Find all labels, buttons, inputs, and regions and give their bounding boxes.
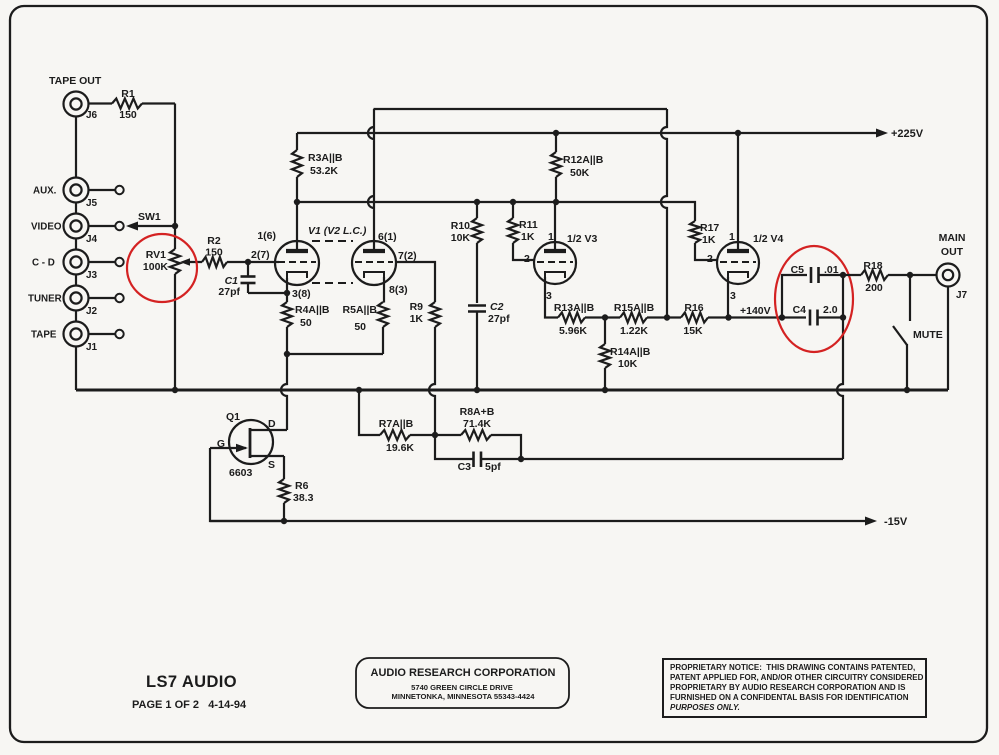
svg-text:R13A||B: R13A||B: [554, 302, 595, 314]
svg-text:J6: J6: [86, 110, 98, 121]
wire J1 contact: [89, 333, 116, 335]
svg-text:150: 150: [119, 109, 137, 121]
wire ground bus: [76, 389, 948, 392]
svg-text:LS7 AUDIO: LS7 AUDIO: [146, 673, 237, 691]
wire V1a anode to R3A node: [296, 202, 298, 251]
svg-text:+140V: +140V: [740, 305, 771, 317]
junction R6 / -15V bus: [281, 518, 287, 524]
wire R14A to ground bus: [604, 368, 606, 390]
junction RV1 ground: [172, 387, 178, 393]
wire R3A top to +225V bus: [296, 133, 298, 150]
junction V4 anode feed: [735, 130, 741, 136]
capacitor C1: [218, 262, 255, 298]
svg-text:TAPE OUT: TAPE OUT: [49, 75, 102, 87]
svg-text:10K: 10K: [451, 232, 471, 244]
svg-text:C - D: C - D: [32, 258, 55, 269]
svg-text:6(1): 6(1): [378, 231, 397, 243]
svg-text:+225V: +225V: [891, 128, 924, 140]
svg-text:AUDIO RESEARCH CORPORATION: AUDIO RESEARCH CORPORATION: [371, 667, 556, 679]
svg-text:5740 GREEN CIRCLE DRIVE: 5740 GREEN CIRCLE DRIVE: [411, 683, 513, 692]
svg-text:27pf: 27pf: [218, 286, 240, 298]
resistor R18: [861, 260, 888, 294]
svg-text:7(2): 7(2): [398, 250, 417, 262]
svg-text:C5: C5: [791, 264, 805, 276]
resistor R1: [112, 88, 142, 121]
resistor R12A||B: [551, 152, 604, 179]
wire C2 to ground bus: [476, 312, 478, 391]
svg-text:R14A||B: R14A||B: [610, 346, 651, 358]
svg-text:50K: 50K: [570, 167, 590, 179]
capacitor C5: [791, 264, 839, 283]
svg-text:J1: J1: [86, 342, 98, 353]
svg-text:50: 50: [354, 321, 366, 333]
svg-text:R5A||B: R5A||B: [343, 304, 378, 316]
junction C4 right: [840, 314, 846, 320]
svg-text:53.2K: 53.2K: [310, 165, 338, 177]
resistor R3A||B: [292, 150, 343, 177]
svg-text:200: 200: [865, 282, 883, 294]
svg-text:38.3: 38.3: [293, 492, 314, 504]
svg-text:R18: R18: [863, 260, 882, 272]
svg-text:15K: 15K: [683, 325, 703, 337]
jack J3 C - D: [32, 250, 115, 282]
wire cathode bus down to Q1 drain (hops ground bus): [281, 354, 287, 430]
svg-text:100K: 100K: [143, 261, 169, 273]
junction C2 ground: [474, 387, 480, 393]
svg-text:1(6): 1(6): [257, 230, 276, 242]
junction C3/R8A node: [518, 456, 524, 462]
wire C3 to output return: [481, 458, 521, 460]
svg-text:R17: R17: [700, 222, 719, 234]
svg-text:1K: 1K: [702, 234, 716, 246]
switch MUTE: [893, 275, 943, 391]
wire J2 contact: [89, 297, 116, 299]
svg-text:MUTE: MUTE: [913, 329, 943, 341]
svg-text:MINNETONKA, MINNESOTA 55343-44: MINNETONKA, MINNESOTA 55343-4424: [392, 692, 536, 701]
potentiometer RV1 100K: [143, 249, 202, 274]
net +225V bus wire: [297, 132, 880, 134]
wire C5 to output node: [819, 274, 844, 276]
proprietary notice box: [663, 659, 926, 717]
resistor R4A||B: [282, 302, 330, 329]
wire RV1 bottom to ground bus: [174, 274, 176, 390]
svg-text:1/2 V3: 1/2 V3: [567, 233, 598, 245]
wire V3 anode to plate bus: [554, 202, 556, 251]
junction R14A ground: [602, 387, 608, 393]
svg-text:2(7): 2(7): [251, 249, 270, 261]
triode V4 (1/2 V4): [717, 242, 759, 284]
jack J1 TAPE: [31, 322, 115, 354]
title block Audio Research Corporation: [356, 658, 569, 708]
svg-text:R6: R6: [295, 480, 309, 492]
RV1 wiper arrow: [184, 261, 202, 263]
capacitor C3: [458, 452, 502, 474]
svg-text:3: 3: [730, 290, 736, 302]
wire R12A top lead: [555, 133, 557, 152]
wire J6 to R1: [89, 102, 113, 104]
svg-text:R11: R11: [519, 219, 538, 231]
wire J5 contact: [89, 189, 116, 191]
wire R13A to R15A: [585, 316, 620, 318]
wire C1 to node 3(8): [248, 292, 287, 294]
svg-text:PATENT APPLIED FOR, AND/OR OTH: PATENT APPLIED FOR, AND/OR OTHER CIRCUIT…: [670, 673, 924, 682]
junction node 3(8): [284, 290, 290, 296]
svg-text:150: 150: [205, 247, 223, 259]
svg-text:5.96K: 5.96K: [559, 325, 587, 337]
svg-text:2: 2: [707, 253, 713, 265]
svg-text:1: 1: [548, 231, 554, 243]
jack J7 MAIN OUT: [937, 232, 968, 301]
svg-text:1/2 V4: 1/2 V4: [753, 233, 784, 245]
capacitor C2: [468, 301, 510, 325]
svg-text:R3A||B: R3A||B: [308, 152, 343, 164]
svg-text:C4: C4: [793, 304, 807, 316]
wire C4 plates leads: [818, 316, 844, 318]
resistor R14A||B: [600, 344, 651, 370]
wire R1 to selector bus: [142, 102, 175, 104]
wire loop right leg down to R15A/R16 node (hops +225V and plate bus): [661, 109, 667, 318]
wire J3 contact: [89, 261, 116, 263]
svg-text:J5: J5: [86, 198, 98, 209]
svg-text:R12A||B: R12A||B: [563, 154, 604, 166]
svg-text:V1 (V2 L.C.): V1 (V2 L.C.): [308, 225, 367, 237]
svg-text:3(8): 3(8): [292, 288, 311, 300]
svg-text:71.4K: 71.4K: [463, 418, 491, 430]
triode V1b (right half): [352, 241, 396, 285]
annotation red ellipse around C4/C5: [775, 246, 853, 352]
junction R10 top: [474, 199, 480, 205]
svg-text:C3: C3: [458, 461, 472, 473]
wire +140V node to C4: [728, 316, 806, 318]
switch SW1 wiper arrow: [126, 211, 174, 231]
triode V3 (1/2 V3): [534, 242, 576, 284]
resistor R2: [202, 235, 227, 267]
wire R14A top lead: [604, 318, 606, 345]
junction node 2(7): [245, 259, 251, 265]
wire top feedback loop: [374, 108, 668, 110]
wire feedback node to R8A: [435, 434, 461, 436]
svg-text:1: 1: [729, 231, 735, 243]
svg-text:R8A+B: R8A+B: [460, 406, 495, 418]
resistor R16: [681, 302, 708, 337]
wire J4 contact: [89, 225, 116, 227]
svg-text:J7: J7: [956, 290, 968, 301]
net +225V arrow and label: [876, 128, 924, 140]
junction feedback node (R7A/R8A/R9/C3): [432, 432, 438, 438]
wire V1b grid to R9 corner: [396, 262, 435, 302]
svg-text:6603: 6603: [229, 467, 253, 479]
wire R17 to V4 grid: [695, 243, 717, 260]
resistor R8A+B: [460, 406, 495, 440]
svg-text:Q1: Q1: [226, 411, 240, 423]
junction R12A bottom / V3 anode: [553, 199, 559, 205]
wire J7 shell to ground bus: [947, 287, 949, 391]
wire C5 node to R18: [843, 274, 861, 276]
wire cathode join bus: [287, 327, 383, 354]
annotation red circle around RV1: [127, 234, 197, 302]
junction R7A ground tap: [356, 387, 362, 393]
wire branch up to C5: [782, 275, 807, 318]
svg-text:AUX.: AUX.: [33, 186, 57, 197]
svg-text:PROPRIETARY NOTICE: THIS DRAW: PROPRIETARY NOTICE: THIS DRAWING CONTAIN…: [670, 663, 915, 672]
svg-text:1K: 1K: [521, 231, 535, 243]
resistor R13A||B: [554, 302, 595, 337]
svg-text:S: S: [268, 459, 275, 471]
resistor R17: [690, 221, 719, 246]
svg-text:2.0: 2.0: [823, 304, 838, 316]
wire R10 leads: [476, 202, 478, 303]
svg-text:MAIN: MAIN: [939, 232, 966, 244]
jack J5 AUX.: [33, 178, 115, 210]
wire R6 to -15V bus: [283, 503, 285, 521]
resistor R7A||B: [379, 418, 415, 454]
svg-text:G: G: [217, 438, 225, 450]
wire output node down to feedback return (hops ground bus): [837, 318, 843, 460]
wire Q1 gate to -15V bus: [210, 448, 284, 521]
svg-text:R9: R9: [410, 301, 424, 313]
svg-text:10K: 10K: [618, 358, 638, 370]
wire R11 to V3 grid: [513, 243, 535, 260]
junction R3A / V1a anode: [294, 199, 300, 205]
transistor Q1 (JFET 6603): [210, 411, 287, 479]
wire Q1 source to R6: [283, 456, 285, 479]
svg-text:8(3): 8(3): [389, 284, 408, 296]
svg-text:OUT: OUT: [941, 246, 964, 258]
wire R16 to V4 cathode node: [708, 316, 729, 318]
jack J4 VIDEO: [31, 214, 115, 246]
wire R9 down to feedback node (hops ground bus): [429, 327, 435, 435]
svg-text:R7A||B: R7A||B: [379, 418, 414, 430]
wire R18 to J7: [888, 274, 936, 276]
svg-text:PROPRIETARY BY AUDIO RESEARCH: PROPRIETARY BY AUDIO RESEARCH CORPORATIO…: [670, 683, 906, 692]
resistor R10: [451, 218, 482, 244]
svg-text:FURNISHED ON A CONFIDENTAL BAS: FURNISHED ON A CONFIDENTAL BASIS FOR IDE…: [670, 693, 909, 702]
junction R13A/R15A/R14A node: [602, 314, 608, 320]
wire feedback return to output: [521, 458, 843, 460]
svg-text:VIDEO: VIDEO: [31, 222, 62, 233]
svg-text:50: 50: [300, 317, 312, 329]
resistor R6: [279, 479, 314, 504]
svg-text:27pf: 27pf: [488, 313, 510, 325]
svg-text:SW1: SW1: [138, 211, 161, 223]
junction MUTE ground: [904, 387, 910, 393]
capacitor C4: [793, 304, 838, 326]
junction R12A top: [553, 130, 559, 136]
wire V1b cathode to R5A: [383, 277, 385, 303]
svg-text:R15A||B: R15A||B: [614, 302, 655, 314]
svg-text:1.22K: 1.22K: [620, 325, 648, 337]
svg-text:J4: J4: [86, 234, 98, 245]
junction SW1 node: [172, 223, 178, 229]
junction mute tap: [907, 272, 913, 278]
triode V1a (left half): [275, 241, 319, 285]
wire R12A bottom to plate bus: [555, 177, 557, 202]
wire V1a cathode to R4A: [286, 278, 288, 302]
svg-text:2: 2: [524, 253, 530, 265]
wire selector bus vertical (R1 / SW1 / RV1): [174, 104, 176, 250]
switch SW1 selector contacts: [115, 186, 123, 338]
svg-text:J2: J2: [86, 306, 98, 317]
wire V1b anode up to top loop (hops +225V and plate bus): [368, 109, 374, 251]
wire V3 cathode to R13A: [545, 277, 558, 318]
svg-text:PAGE 1 OF 2 4-14-94: PAGE 1 OF 2 4-14-94: [132, 699, 247, 711]
svg-text:R1: R1: [121, 88, 135, 100]
wire R8A right to C3 node: [491, 435, 521, 459]
svg-text:-15V: -15V: [884, 516, 908, 528]
resistor R5A||B: [343, 302, 388, 333]
svg-text:PURPOSES ONLY.: PURPOSES ONLY.: [670, 703, 740, 712]
wire R3A bottom to plate bus: [296, 177, 298, 202]
wire C4/C5 right branch: [842, 275, 844, 318]
junction C5 right: [840, 272, 846, 278]
resistor R11: [508, 218, 538, 243]
svg-text:5pf: 5pf: [485, 461, 501, 473]
svg-text:3: 3: [546, 290, 552, 302]
wire R7A to feedback node: [410, 434, 435, 436]
svg-text:J3: J3: [86, 270, 98, 281]
junction R15A/R16/loop node: [664, 314, 670, 320]
wire feedback node down to C3: [435, 435, 474, 459]
wire R2 to V1 grid: [227, 261, 276, 263]
svg-text:1K: 1K: [410, 313, 424, 325]
wire V1a grid stub: [276, 261, 279, 263]
wire jack bus J6..J1 to ground bus: [75, 117, 77, 391]
junction C4/C5 left branch: [779, 314, 785, 320]
resistor R9: [410, 301, 440, 327]
svg-text:C2: C2: [490, 301, 504, 313]
net -15V bus wire: [210, 520, 869, 522]
jack J6 TAPE OUT: [49, 75, 102, 121]
svg-text:R16: R16: [684, 302, 703, 314]
jack J2 TUNER: [28, 286, 115, 318]
svg-text:TUNER: TUNER: [28, 294, 62, 305]
svg-text:19.6K: 19.6K: [386, 442, 414, 454]
svg-text:R10: R10: [451, 220, 470, 232]
wire V4 anode to +225V bus: [737, 133, 739, 251]
junction V4 cathode / R16: [725, 314, 731, 320]
svg-text:TAPE: TAPE: [31, 330, 57, 341]
wire R11 top lead: [512, 202, 514, 218]
junction R11 top: [510, 199, 516, 205]
svg-text:R4A||B: R4A||B: [295, 304, 330, 316]
svg-text:R2: R2: [207, 235, 221, 247]
junction cathode bus: [284, 351, 290, 357]
svg-text:D: D: [268, 418, 276, 430]
wire plate bus (R3A node to R17): [297, 202, 695, 221]
V1 envelope (dashed): [312, 241, 353, 283]
wire R15A to R16: [647, 316, 681, 318]
wire V4 cathode to output node: [727, 277, 729, 318]
svg-text:RV1: RV1: [146, 249, 166, 261]
net -15V arrow and label: [865, 516, 908, 528]
resistor R15A||B: [614, 302, 655, 337]
wire ground bus tap to R7A: [359, 390, 380, 435]
